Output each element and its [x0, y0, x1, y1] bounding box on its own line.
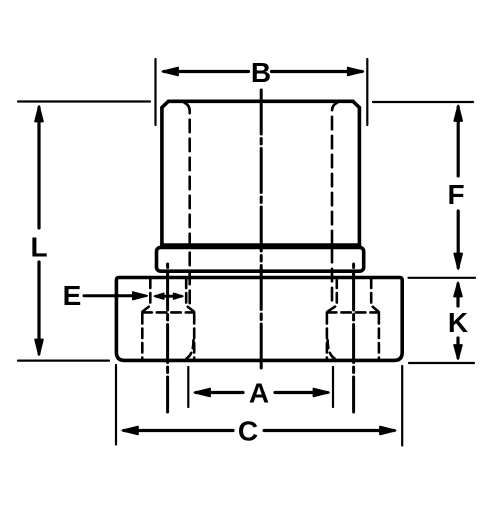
dimension E leader arrowhead — [133, 292, 148, 300]
dimension C line right segment — [264, 429, 394, 432]
dimension C left arrowhead — [122, 427, 137, 435]
dimension F top arrowhead — [454, 106, 462, 122]
svg-text:A: A — [249, 378, 269, 409]
dimension F line lower segment — [457, 211, 460, 268]
svg-text:F: F — [447, 179, 464, 210]
dimension F line upper segment — [457, 107, 460, 176]
extension line: B left — [154, 59, 156, 125]
dimension K bottom arrowhead — [454, 345, 462, 359]
dimension B right arrowhead — [348, 68, 364, 76]
collar (flange) outline — [157, 247, 364, 271]
hidden line: left counterbore top edge — [142, 311, 194, 314]
svg-text:E: E — [63, 280, 82, 311]
dimension C line left segment — [124, 429, 233, 432]
dimension E inner left arrowhead — [154, 293, 164, 299]
extension line: A left — [187, 367, 189, 407]
extension line: bottom right (K bottom) — [409, 362, 474, 364]
hidden line: left counterbore left wall — [141, 314, 144, 359]
dimension L bottom arrowhead — [35, 340, 43, 356]
svg-text:L: L — [30, 232, 47, 263]
dimension K line upper segment — [456, 284, 459, 306]
hidden line: left counterbore bottom fillet — [187, 340, 194, 359]
hidden line: right counterbore bottom fillet — [328, 340, 335, 359]
dimension L line lower segment — [37, 262, 40, 354]
extension line: top right (F top) — [373, 101, 473, 103]
dimension F bottom arrowhead — [454, 254, 462, 270]
hidden line: cylinder bore left — [185, 103, 190, 306]
dimension A left arrowhead — [195, 389, 211, 397]
dimension A line right segment — [275, 391, 328, 394]
hidden line: right counterbore top edge — [327, 311, 379, 314]
hidden line: right insert bore left edge — [328, 279, 337, 312]
dimension A line left segment — [196, 391, 243, 394]
hidden line: right counterbore left wall — [326, 314, 329, 359]
hidden line: left counterbore right wall — [193, 314, 196, 359]
hidden line: right counterbore right wall — [378, 314, 381, 359]
dimension B line left segment — [164, 70, 249, 73]
extension line: mid right (F bottom / K top) — [409, 277, 476, 279]
dimension E inner right arrowhead — [174, 293, 184, 299]
base block outline — [116, 278, 402, 361]
center line: left bore axis — [166, 264, 169, 412]
dimension E leader line — [84, 294, 144, 297]
extension line: top left (L top / part top) — [18, 100, 150, 102]
hidden line: right insert bore right edge — [371, 279, 378, 312]
hidden line: left insert bore right edge — [186, 279, 194, 312]
extension line: C right — [401, 366, 403, 446]
hidden line: left insert bore left edge — [143, 279, 151, 312]
extension line: B right — [366, 59, 368, 125]
dimension A right arrowhead — [314, 389, 330, 397]
dimension K top arrowhead — [454, 283, 462, 297]
cylinder (upper block) outline — [162, 101, 360, 245]
hidden line: cylinder bore right — [332, 103, 337, 306]
center line: main vertical axis — [260, 90, 263, 370]
svg-text:K: K — [448, 307, 468, 338]
dimension C right arrowhead — [380, 427, 396, 435]
svg-text:C: C — [238, 416, 258, 447]
extension line: C left — [115, 365, 117, 445]
cylinder bottom edge — [162, 243, 360, 247]
dimension B left arrowhead — [163, 68, 179, 76]
svg-text:B: B — [251, 57, 271, 88]
dimension L top arrowhead — [35, 106, 43, 122]
dimension B line right segment — [272, 70, 363, 73]
extension line: A right — [332, 367, 334, 407]
center line: right bore axis — [352, 264, 355, 412]
dimension E inner double-arrow line — [156, 295, 182, 298]
dimension K line lower segment — [456, 338, 459, 358]
extension line: bottom left (L bottom) — [18, 360, 109, 362]
dimension L line upper segment — [37, 108, 40, 229]
